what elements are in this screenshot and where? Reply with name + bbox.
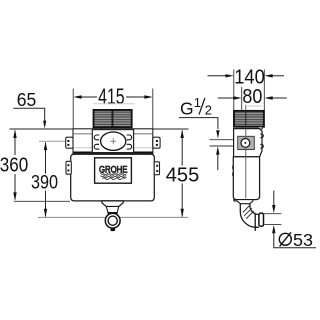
inlet box front (hatched) (94, 110, 132, 128)
svg-text:455: 455 (166, 164, 200, 187)
coupling capsule (259, 213, 264, 226)
dimension 390 (45, 143, 47, 217)
valve inner block (238, 136, 255, 149)
svg-text:80: 80 (242, 86, 262, 108)
flush valve ellipse (101, 132, 126, 150)
drain neck front (106, 207, 118, 213)
dimension 455 (181, 131, 183, 217)
valve right hook upper (260, 134, 263, 138)
inlet box side (hatched) (234, 111, 264, 127)
band inner rails (74, 133, 153, 135)
frame clip left lower (94, 144, 99, 149)
elbow inner (250, 204, 259, 215)
dimension 140 (234, 70, 264, 111)
drain dark cap (108, 212, 118, 215)
side center line lower (245, 148, 247, 199)
left band tab (66, 137, 73, 148)
svg-text:140: 140 (234, 66, 265, 88)
bottom flange side (234, 200, 253, 204)
valve circle side (241, 139, 250, 148)
extension line tank bottom y201.3 (14, 200, 70, 202)
valve center line mid (245, 129, 247, 139)
elbow junction line (254, 214, 256, 231)
svg-text:390: 390 (31, 172, 58, 194)
frame clip right upper (127, 135, 132, 140)
G 1/2 up arrow (216, 146, 219, 154)
frame clip left upper (94, 135, 99, 140)
dia53 extension lines (264, 214, 282, 225)
outlet ring inner (108, 216, 117, 225)
ellipse center mark (110, 138, 116, 144)
tank body front (71, 154, 155, 201)
svg-text:65: 65 (17, 89, 37, 110)
valve body side (234, 129, 262, 157)
extension line top y129 (9, 128, 188, 130)
band bottom thick edge (73, 151, 153, 153)
dimension 415 (73, 89, 153, 129)
mounting band (73, 129, 153, 154)
dia53 symbol (279, 233, 291, 245)
dimension 80 (241, 87, 243, 111)
elbow outer (240, 204, 259, 228)
front view faint top line (93, 103, 135, 105)
G 1/2 down arrow (216, 130, 219, 138)
elbow hatch (243, 206, 254, 219)
drain flange front (102, 201, 123, 207)
side view faint top line (247, 105, 262, 107)
tank side left ticks (232, 166, 233, 170)
side view center pipe line (245, 105, 247, 111)
extension line bottom y217.4 (38, 216, 188, 218)
inlet box divider (112, 111, 114, 127)
GROHE access plate (95, 158, 132, 183)
frame clip right lower (127, 144, 132, 149)
outlet nub (111, 228, 116, 231)
dimension 360 (14, 131, 16, 200)
svg-text:2: 2 (205, 102, 212, 117)
svg-text:53: 53 (293, 230, 313, 250)
centerline inlet y141.3 (39, 140, 100, 142)
valve frame front (92, 130, 133, 153)
side flange lip (236, 127, 258, 129)
valve right hook lower (260, 144, 263, 148)
svg-text:415: 415 (98, 84, 125, 109)
G 1/2 leader (179, 118, 218, 129)
tank clip left (66, 161, 71, 174)
svg-text:360: 360 (0, 155, 28, 177)
svg-text:1: 1 (194, 95, 201, 110)
G 1/2 extension lines (210, 140, 234, 146)
dia53 leader upper (273, 191, 275, 206)
svg-text:G: G (180, 98, 194, 118)
tank body side (233, 157, 259, 200)
outlet ring outer (105, 213, 120, 228)
GROHE waves (101, 173, 127, 180)
dia53 lower arrow (272, 225, 275, 233)
right band tab (153, 137, 160, 148)
tank clip right (154, 162, 159, 175)
dimension 65 leader (13, 108, 45, 121)
dimension 65 arrow (43, 121, 46, 129)
